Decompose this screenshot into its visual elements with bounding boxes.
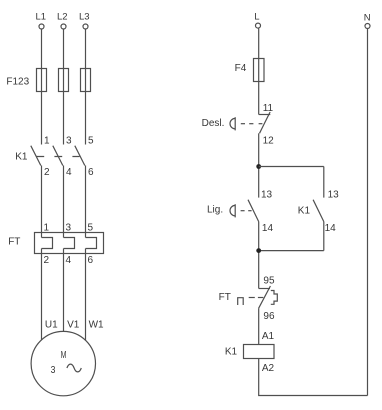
wire L terminal to fuse F4 and down to Desl contact — [258, 28, 260, 114]
contactor coil K1 A1-A2 — [244, 345, 275, 359]
svg-text:L: L — [254, 12, 259, 23]
terminal L3 — [79, 12, 90, 30]
svg-text:6: 6 — [88, 255, 94, 266]
svg-text:W1: W1 — [89, 320, 104, 331]
svg-text:13: 13 — [328, 189, 340, 200]
svg-text:6: 6 — [88, 167, 94, 178]
contactor K1 main contact pole 3 (pins 5-6) — [75, 135, 94, 178]
fuse F123 pole 2 — [59, 69, 69, 92]
svg-text:11: 11 — [263, 103, 274, 114]
overload FT trip mechanism symbol — [271, 291, 278, 305]
FT trip actuator symbol and dashed link — [238, 298, 264, 306]
fuse F123 pole 3 — [81, 69, 91, 92]
terminal L2 — [57, 12, 68, 30]
svg-text:F123: F123 — [6, 77, 29, 88]
svg-text:V1: V1 — [67, 320, 80, 331]
node junction bottom — [256, 248, 261, 253]
contactor K1 main contact pole 2 (pins 3-4) — [53, 135, 72, 178]
contactor K1 mechanical linkage dashed line — [36, 156, 79, 158]
wire FT contact to coil A1 — [258, 308, 260, 344]
terminal L (control) — [254, 12, 260, 29]
svg-text:K1: K1 — [225, 347, 238, 358]
fuse F4 — [254, 59, 265, 82]
svg-text:A1: A1 — [262, 331, 275, 342]
wire FT to motor V1 — [63, 249, 65, 332]
svg-text:95: 95 — [263, 276, 275, 287]
svg-text:M: M — [61, 350, 67, 361]
svg-text:K1: K1 — [15, 152, 28, 163]
svg-text:2: 2 — [44, 255, 50, 266]
wire pole1 contact to FT — [41, 166, 43, 238]
wire branch to K1 aux — [259, 167, 324, 198]
svg-text:FT: FT — [8, 237, 20, 248]
svg-text:L1: L1 — [36, 12, 47, 23]
svg-text:14: 14 — [325, 223, 337, 234]
overload relay FT heater element pole 2 — [64, 238, 75, 249]
svg-text:14: 14 — [262, 223, 274, 234]
motor terminal labels U1 V1 W1 — [45, 320, 104, 331]
overload relay FT heater element pole 1 — [42, 238, 53, 249]
wire Desl to Lig contact — [258, 133, 260, 197]
node junction top — [256, 164, 261, 169]
wire FT to motor U1 — [41, 249, 43, 340]
wire L3 down to K1 contact — [85, 29, 87, 145]
svg-text:3: 3 — [51, 365, 56, 376]
svg-text:5: 5 — [88, 223, 94, 234]
pushbutton Lig NO contact — [248, 200, 259, 222]
overload FT pin labels top 1 3 5 — [44, 223, 94, 234]
overload relay FT heater element pole 3 — [86, 238, 97, 249]
svg-text:Desl.: Desl. — [202, 118, 225, 129]
wire FT to motor W1 — [85, 249, 87, 341]
svg-text:3: 3 — [66, 223, 72, 234]
svg-text:4: 4 — [66, 255, 72, 266]
motor M 3~ — [31, 331, 95, 395]
terminal N — [364, 12, 371, 28]
svg-text:N: N — [364, 12, 371, 23]
overload FT NC contact 95-96 — [259, 286, 271, 308]
svg-text:3: 3 — [66, 135, 72, 146]
wire coil A2 down and right to N — [259, 359, 368, 396]
svg-text:1: 1 — [44, 135, 50, 146]
wire Lig down through junction to FT contact — [258, 222, 260, 289]
svg-text:2: 2 — [44, 167, 50, 178]
pushbutton Lig head — [230, 204, 235, 217]
svg-text:L2: L2 — [57, 12, 68, 23]
svg-text:96: 96 — [263, 311, 275, 322]
svg-text:5: 5 — [88, 135, 94, 146]
overload relay FT outline — [35, 233, 104, 254]
svg-text:K1: K1 — [298, 205, 311, 216]
overload FT pin labels bottom 2 4 6 — [44, 255, 94, 266]
terminal L1 — [36, 12, 47, 30]
svg-text:U1: U1 — [45, 320, 58, 331]
svg-text:1: 1 — [44, 223, 50, 234]
svg-text:A2: A2 — [262, 363, 275, 374]
pushbutton Desl NC contact — [259, 112, 271, 133]
svg-text:L3: L3 — [79, 12, 90, 23]
N rail wire — [367, 29, 369, 396]
svg-text:12: 12 — [263, 136, 275, 147]
contactor K1 aux NO contact 13-14 — [313, 200, 324, 251]
wire L2 down to K1 contact — [63, 29, 65, 145]
svg-text:4: 4 — [66, 167, 72, 178]
wire branch bottom horizontal — [259, 250, 324, 252]
svg-text:FT: FT — [219, 292, 231, 303]
wire pole3 contact to FT — [85, 166, 87, 238]
contactor K1 main contact pole 1 (pins 1-2) — [31, 135, 50, 178]
pushbutton Desl head — [230, 117, 235, 130]
pushbutton Lig actuator dashed link — [241, 210, 252, 212]
svg-text:Lig.: Lig. — [207, 205, 223, 216]
wire L1 down to K1 contact — [41, 29, 43, 145]
wire pole2 contact to FT — [63, 166, 65, 238]
fuse F123 pole 1 — [37, 69, 47, 92]
pushbutton Desl actuator dashed link — [241, 123, 263, 125]
svg-text:13: 13 — [261, 189, 273, 200]
svg-text:F4: F4 — [235, 63, 247, 74]
